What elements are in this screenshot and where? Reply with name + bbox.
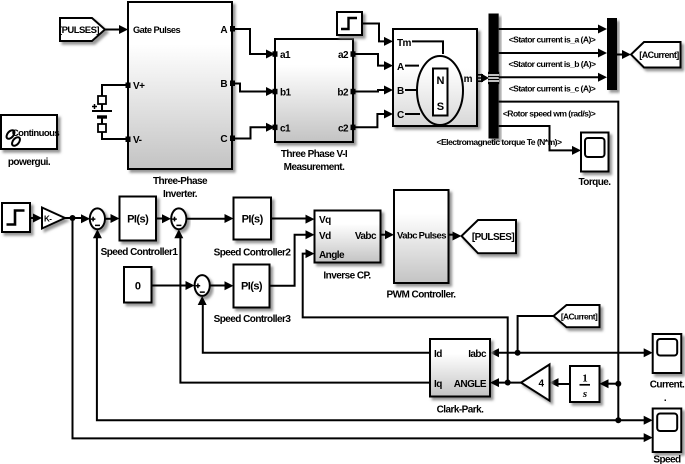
node speed scope junction	[615, 417, 621, 423]
svg-text:PWM Controller.: PWM Controller.	[387, 290, 457, 301]
svg-text:<Rotor speed wm (rad/s)>: <Rotor speed wm (rad/s)>	[503, 109, 596, 119]
Three-Phase Inverter block	[126, 2, 236, 200]
svg-text:V+: V+	[133, 81, 145, 92]
constant 0 block	[124, 267, 152, 303]
svg-text:Iq: Iq	[434, 379, 442, 390]
From tag PULSES	[59, 18, 105, 41]
integrator 1/s	[570, 366, 600, 402]
sum Sum1	[90, 208, 105, 229]
wire gain4 to ANGLE	[490, 378, 521, 387]
svg-text:Speed Controller3: Speed Controller3	[214, 314, 292, 325]
From tag ACurrent	[554, 305, 600, 327]
svg-text:Vq: Vq	[319, 215, 331, 226]
svg-text:a1: a1	[280, 50, 291, 61]
bus wire m to Bus Selector	[477, 74, 489, 83]
wire ACurrent to Iabc and Current scope	[490, 316, 653, 357]
wire PULSES to Gate Pulses	[105, 25, 128, 34]
wire PI1 to sum2	[156, 214, 171, 223]
Mux bar	[607, 18, 617, 90]
wire stator current is_b	[499, 49, 607, 58]
svg-text:Torque.: Torque.	[578, 177, 611, 188]
svg-text:b1: b1	[280, 88, 292, 99]
svg-text:C: C	[220, 134, 227, 145]
wire inverter C to c1	[232, 123, 275, 139]
wire PI2 to Vq	[271, 215, 315, 224]
svg-text:c1: c1	[280, 123, 291, 134]
svg-text:0: 0	[135, 281, 141, 293]
svg-text:[PULSES]: [PULSES]	[472, 232, 514, 243]
wire speed feedback to sum1 and Speed scope	[93, 229, 653, 424]
svg-text:1: 1	[582, 373, 587, 385]
wire mux to ACurrent goto	[617, 50, 631, 59]
svg-text:S: S	[437, 101, 444, 113]
svg-text:K-: K-	[44, 215, 52, 224]
svg-text:Current.: Current.	[650, 380, 685, 391]
node Iabc junction	[515, 350, 521, 356]
svg-text:Tm: Tm	[397, 38, 412, 49]
svg-text:[ACurrent]: [ACurrent]	[561, 312, 598, 322]
svg-text:PI(s): PI(s)	[241, 281, 263, 293]
wire 0 to sum3	[152, 281, 195, 290]
svg-text:Iabc: Iabc	[468, 349, 487, 360]
wire Vabc to PWM	[381, 230, 395, 239]
wire step to Tm	[362, 24, 393, 46]
wire angle branch to Inverse CP	[303, 249, 508, 382]
PI controller Speed Controller1	[101, 197, 179, 259]
Speed scope	[653, 409, 682, 464]
wire rotor speed wm	[499, 102, 619, 421]
powergui block	[1, 115, 59, 168]
wire inverter A to a1	[232, 29, 275, 59]
svg-text:[ACurrent]: [ACurrent]	[639, 50, 679, 60]
wire sum3 to PI3	[210, 281, 234, 290]
Step block speed reference	[2, 203, 30, 232]
svg-text:Angle: Angle	[319, 250, 345, 261]
svg-text:A: A	[397, 62, 404, 73]
svg-text:B: B	[220, 79, 227, 90]
Torque scope	[578, 133, 611, 189]
wire sum1 to PI1	[105, 214, 120, 223]
wire a2 to A	[353, 54, 393, 70]
wire step to gain	[30, 214, 42, 223]
svg-text:Id: Id	[434, 349, 442, 360]
Clark-Park block	[430, 339, 490, 416]
svg-text:Speed: Speed	[653, 455, 681, 464]
wire speed to integrator	[600, 379, 619, 388]
Three Phase V-I Measurement block	[273, 39, 356, 173]
svg-text:Vd: Vd	[319, 231, 331, 242]
sum Sum2	[171, 208, 186, 229]
wire stator current is_a	[499, 25, 607, 34]
svg-text:[PULSES]: [PULSES]	[59, 25, 99, 36]
wire speed reference to Speed scope	[73, 218, 653, 442]
wire b2 to B	[353, 86, 393, 95]
wire sum2 to PI2	[186, 214, 233, 223]
node ANGLE junction	[505, 380, 511, 386]
svg-text:Vabc: Vabc	[355, 231, 377, 242]
svg-text:A: A	[220, 25, 227, 36]
svg-text:Measurement.: Measurement.	[284, 162, 345, 173]
svg-text:<Electromagnetic torque Te (N*: <Electromagnetic torque Te (N*m)>	[437, 137, 562, 147]
Bus Selector bar	[489, 14, 499, 139]
svg-text:Vabc: Vabc	[397, 231, 417, 242]
svg-text:PI(s): PI(s)	[242, 214, 264, 226]
svg-text:b2: b2	[337, 88, 349, 99]
Goto tag PULSES	[462, 220, 517, 253]
PI controller Speed Controller3	[214, 265, 292, 326]
svg-text:powergui.: powergui.	[8, 157, 51, 168]
wire c2 to C	[353, 110, 393, 128]
wire electromagnetic torque	[499, 126, 581, 155]
wire V+ to battery	[102, 85, 128, 96]
svg-text:Pulses: Pulses	[419, 231, 447, 242]
svg-text:Gate Pulses: Gate Pulses	[133, 25, 181, 35]
PI controller Speed Controller2	[214, 198, 292, 259]
wire Iq feedback to sum2	[174, 229, 430, 382]
svg-text:<Stator current is_b (A)>: <Stator current is_b (A)>	[508, 59, 596, 69]
Inverse CP block	[315, 211, 381, 282]
svg-text:<Stator current is_c (A)>: <Stator current is_c (A)>	[509, 84, 596, 94]
Goto tag ACurrent	[631, 42, 681, 68]
svg-text:Clark-Park.: Clark-Park.	[437, 405, 485, 416]
wire Id feedback to sum3	[198, 296, 430, 353]
svg-text:Three-Phase: Three-Phase	[153, 176, 208, 187]
svg-text:Inverter.: Inverter.	[163, 189, 198, 200]
svg-text:N: N	[436, 75, 444, 87]
svg-text:PI(s): PI(s)	[127, 214, 149, 226]
PWM Controller block	[387, 190, 457, 301]
wire integrator to gain4	[550, 378, 571, 387]
wire battery to V-	[102, 132, 128, 139]
svg-text:V-: V-	[133, 135, 142, 146]
wire Pulses to PULSES goto	[449, 232, 462, 241]
wire stator current is_c	[499, 73, 607, 82]
svg-text:Speed Controller1: Speed Controller1	[101, 247, 179, 258]
svg-text:B: B	[397, 86, 404, 97]
wire PI3 to Vd	[270, 230, 315, 286]
Current scope	[650, 334, 685, 404]
node integrator tap	[615, 381, 621, 387]
svg-text:s: s	[582, 388, 587, 400]
bus connector on selector	[488, 72, 499, 84]
gain 4	[521, 365, 550, 401]
sum Sum3	[195, 275, 210, 296]
svg-text:<Stator current is_a (A)>: <Stator current is_a (A)>	[509, 35, 596, 45]
svg-text:C: C	[397, 110, 404, 121]
wire gain to sum1	[65, 214, 90, 223]
svg-text:a2: a2	[338, 50, 349, 61]
node after gain	[70, 215, 76, 221]
svg-text:Speed Controller2: Speed Controller2	[214, 248, 292, 259]
DC voltage source battery	[92, 96, 112, 132]
svg-text:m: m	[464, 74, 473, 85]
wire inverter B to b1	[232, 84, 275, 97]
svg-text:Inverse CP.: Inverse CP.	[323, 271, 371, 282]
Step block Tm source	[337, 12, 362, 35]
svg-text:ANGLE: ANGLE	[454, 379, 487, 390]
svg-text:Three Phase V-I: Three Phase V-I	[281, 149, 348, 160]
PMSM machine block	[393, 29, 477, 126]
gain K	[42, 208, 65, 229]
svg-text:c2: c2	[338, 123, 349, 134]
